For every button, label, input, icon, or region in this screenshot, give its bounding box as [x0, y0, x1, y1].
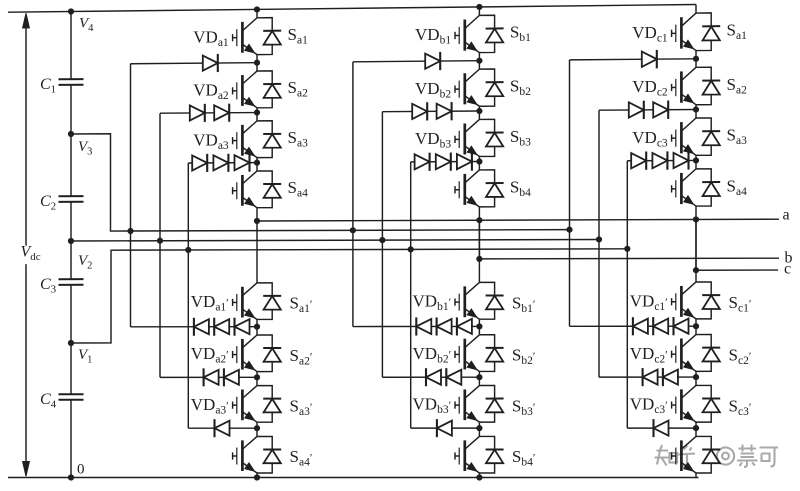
wire: V2 clamp feed for leg b: [381, 112, 383, 378]
clamp diode string VDb2 (clamp b upper 2): [382, 79, 479, 121]
antiparallel diode of Sa3&#8242;: [257, 386, 281, 423]
clamp diode string VDb2&#8242; (clamp b lower 2): [382, 344, 479, 386]
antiparallel diode of Sa1&#8242;: [257, 283, 281, 320]
clamp diode string VDc2&#8242; (clamp c lower 2): [599, 344, 696, 386]
wire: output line a: [257, 219, 779, 221]
wire: V2 clamp feed for leg c: [598, 110, 600, 377]
clamp diode string VDa1 (clamp a upper 1): [131, 27, 258, 72]
wire: V1 clamp feed for leg c: [626, 161, 628, 428]
wire: V2 clamp feed for leg a: [159, 113, 161, 377]
clamp diode string VDc2 (clamp c upper 2): [599, 77, 696, 119]
antiparallel diode of Sa4: [696, 169, 720, 206]
wire: V2 bus (node V2 to clamp feeds): [71, 239, 599, 241]
wire: V1 bus (node V1 to clamp feeds): [71, 249, 627, 343]
transistor Sc3&#8242; (IGBT c3-lower): [672, 377, 696, 428]
watermark (gray, bottom-right): [655, 445, 779, 468]
antiparallel diode of Sb4: [479, 170, 503, 207]
junction: node V1: [68, 340, 74, 346]
antiparallel diode of Sc4&#8242;: [696, 436, 720, 473]
junctions: clamp bus taps for leg c: [566, 227, 630, 252]
antiparallel diode of Sb3: [479, 119, 503, 156]
transistor Sa2&#8242; (IGBT a2-lower): [233, 327, 257, 378]
svg-text:c: c: [784, 260, 791, 277]
junctions: clamp bus taps for leg a: [127, 228, 191, 253]
capacitor C2: [40, 193, 84, 213]
antiparallel diode of Sa4&#8242;: [257, 436, 281, 473]
antiparallel diode of Sb1&#8242;: [479, 282, 503, 319]
antiparallel diode of Sa1: [696, 13, 720, 51]
clamp diode string VDb1&#8242; (clamp b lower 1): [353, 292, 480, 336]
svg-text:a: a: [783, 207, 790, 224]
clamp diode string VDa3&#8242; (clamp a lower 3): [188, 395, 257, 437]
junction: V4 (top rail / column): [68, 8, 74, 14]
transistor Sb3&#8242; (IGBT b3-lower): [455, 377, 479, 428]
transistor Sa1&#8242; (IGBT a1-lower): [233, 275, 257, 327]
transistor Sa3 (IGBT a3-upper): [233, 113, 257, 163]
wire: V3 clamp feed for leg c: [569, 60, 571, 326]
wire: phase-c leg vertical, phase node down to Sc1&#8242;: [695, 219, 697, 273]
antiparallel diode of Sa4: [257, 171, 281, 208]
clamp diode string VDa3 (clamp a upper 3): [188, 130, 257, 172]
transistor Sb2&#8242; (IGBT b2-lower): [455, 326, 479, 377]
transistor Sa4 (IGBT c4-upper): [672, 160, 696, 219]
clamp diode string VDa2 (clamp a upper 2): [160, 81, 257, 122]
antiparallel diode of Sc2&#8242;: [696, 335, 720, 372]
antiparallel diode of Sa3: [696, 118, 720, 155]
transistor Sb4 (IGBT b4-upper): [455, 162, 479, 221]
antiparallel diode of Sc1&#8242;: [696, 282, 720, 319]
clamp diode string VDc1&#8242; (clamp c lower 1): [570, 291, 697, 335]
capacitor C4: [40, 391, 84, 411]
transistor Sc2&#8242; (IGBT c2-lower): [672, 326, 696, 377]
capacitor C3: [40, 276, 84, 296]
antiparallel diode of Sb4&#8242;: [479, 436, 503, 473]
clamp diode string VDc1 (clamp c upper 1): [570, 23, 697, 68]
wire: output line b tap: [478, 220, 480, 259]
clamp diode string VDb1 (clamp b upper 1): [353, 25, 480, 70]
wire: DC-link column: [70, 12, 72, 478]
wire: V1 clamp feed for leg b: [410, 162, 412, 428]
clamp diode string VDa1&#8242; (clamp a lower 1): [131, 292, 258, 336]
wire: output line c: [696, 269, 778, 271]
clamp diode string VDb3&#8242; (clamp b lower 3): [411, 395, 480, 437]
antiparallel diode of Sa3: [257, 121, 281, 158]
clamp diode string VDc3&#8242; (clamp c lower 3): [627, 395, 696, 437]
wire: phase-a leg vertical, phase node down to Sa1&#8242;: [256, 221, 258, 275]
antiparallel diode of Sc3&#8242;: [696, 385, 720, 422]
transistor Sa3 (IGBT c3-upper): [672, 110, 696, 161]
antiparallel diode of Sb3&#8242;: [479, 386, 503, 423]
clamp diode string VDa2&#8242; (clamp a lower 2): [160, 344, 257, 386]
transistor Sb1 (IGBT b1-upper): [455, 7, 479, 61]
wire: V3 clamp feed for leg b: [352, 62, 354, 327]
junctions: phase-a leg nodes: [254, 6, 260, 480]
wire: V3 clamp feed for leg a: [130, 64, 132, 327]
antiparallel diode of Sa2: [696, 67, 720, 105]
junction: b-line tap: [476, 256, 482, 262]
antiparallel diode of Sa2&#8242;: [257, 335, 281, 372]
junctions: clamp bus taps for leg b: [350, 227, 414, 252]
transistor Sa2 (IGBT c2-upper): [672, 59, 696, 110]
antiparallel diode of Sa1: [257, 18, 281, 55]
clamp diode string VDb3 (clamp b upper 3): [411, 129, 480, 171]
transistor Sa2 (IGBT a2-upper): [233, 63, 257, 113]
wire: output line c tap: [695, 219, 697, 270]
capacitor C1: [40, 76, 84, 96]
transistor Sa3&#8242; (IGBT a3-lower): [233, 377, 257, 428]
transistor Sb2 (IGBT b2-upper): [455, 61, 479, 111]
transistor Sa1 (IGBT c1-upper): [672, 5, 696, 59]
junction: node 0 (bottom rail / column): [68, 474, 74, 480]
wire: output line b: [479, 257, 779, 260]
junction: node V2: [68, 238, 74, 244]
transistor Sc4&#8242; (IGBT c4-lower): [672, 428, 696, 477]
transistor Sa4 (IGBT a4-upper): [233, 163, 257, 221]
svg-text:0: 0: [77, 462, 85, 478]
transistor Sc1&#8242; (IGBT c1-lower): [672, 274, 696, 327]
junctions: phase-b leg nodes: [476, 4, 482, 481]
wire: top DC rail (V4): [8, 5, 696, 13]
transistor Sa4&#8242; (IGBT a4-lower): [233, 428, 257, 477]
wire: phase-b leg vertical, phase node down to Sb1&#8242;: [478, 220, 480, 274]
wire: V3 bus (node V3 to clamp feeds): [71, 134, 570, 231]
antiparallel diode of Sb2: [479, 69, 503, 106]
antiparallel diode of Sb2&#8242;: [479, 335, 503, 372]
antiparallel diode of Sb1: [479, 15, 503, 52]
transistor Sa1 (IGBT a1-upper): [233, 9, 257, 62]
wire: V1 clamp feed for leg a: [187, 163, 189, 428]
transistor Sb4&#8242; (IGBT b4-lower): [455, 428, 479, 477]
transistor Sb3 (IGBT b3-upper): [455, 111, 479, 162]
junctions: phase-c leg nodes: [693, 56, 699, 432]
transistor Sb1&#8242; (IGBT b1-lower): [455, 274, 479, 326]
wire: bottom DC rail (0): [8, 477, 699, 479]
junction: c-line tap: [693, 267, 699, 273]
Vdc dimension arrow: [23, 13, 30, 476]
junction: node V3: [68, 131, 74, 137]
antiparallel diode of Sa2: [257, 71, 281, 108]
clamp diode string VDc3 (clamp c upper 3): [627, 128, 696, 170]
